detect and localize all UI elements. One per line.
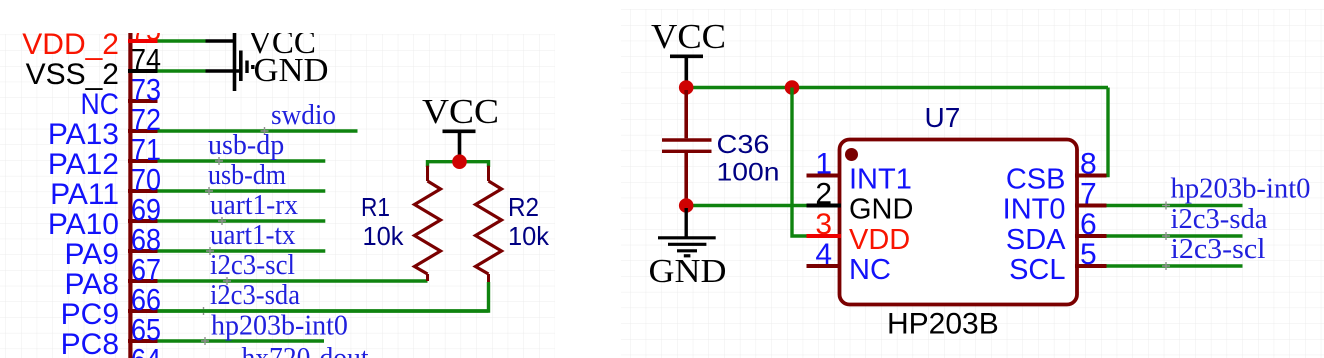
U7 pin 8 stub (CSB) [1075,174,1107,178]
VCC power symbol stem [458,131,462,161]
wire net hp203b-int0 (right) [1107,204,1243,207]
U7 pin 2 stub (GND) [807,204,842,208]
resistor R1 body zigzag [415,181,441,274]
svg-text:GND: GND [254,52,329,89]
junction dot VCC/R1/R2 [452,154,467,169]
U7 pin-1 marker dot [845,148,858,161]
svg-text:5: 5 [1080,238,1097,271]
wire joint marker swdio [261,127,269,135]
resistor R2 top wire corner [487,160,490,167]
U7 pin 1 stub (INT1) [807,174,842,178]
resistor R1 bottom lead [426,274,429,281]
wire net uart1-tx [158,249,326,252]
wire joint marker usb-dp [215,157,223,165]
MCU pin 68 stub (PA9) [128,249,158,253]
VCC power symbol (right): bar [670,54,703,58]
wire joint marker uart1-rx [218,217,226,225]
svg-text:i2c3-scl: i2c3-scl [210,250,295,281]
MCU pin 75 stub (VDD_2) [128,39,158,43]
svg-text:3: 3 [815,208,832,241]
GND symbol bar 3 [245,61,248,74]
GND symbol (right): bar 3 [677,249,697,252]
op-amp/sensor U7 body [840,140,1078,305]
svg-text:INT0: INT0 [1003,193,1066,225]
GND symbol (right): bar 1 [658,236,716,239]
svg-text:GND: GND [649,253,727,290]
U7 pin 5 stub (SCL) [1075,264,1107,268]
svg-text:2: 2 [815,177,832,210]
wire joint marker i2c3-scl [223,277,231,285]
svg-text:uart1-tx: uart1-tx [210,220,296,251]
wire net i2c3-scl [158,279,428,282]
svg-text:U7: U7 [925,102,961,133]
resistor R2 body zigzag [476,181,502,274]
U7 pin 7 stub (INT0) [1075,204,1107,208]
svg-text:NC: NC [81,88,120,121]
wire VDD branch vertical to pin 3 [792,88,807,237]
svg-text:hp203b-int0: hp203b-int0 [1171,174,1311,205]
U7 pin 4 stub (NC) [807,264,842,268]
wire net i2c3-sda (right) [1107,234,1243,237]
U7 pin 3 stub (VDD) [807,234,842,238]
VCC power symbol above resistors: bar [443,130,476,134]
wire net hp203b-int0 [158,339,325,342]
svg-text:SDA: SDA [1006,224,1066,256]
svg-text:1: 1 [815,147,832,180]
svg-text:7: 7 [1080,177,1097,210]
resistor R2 top lead [487,166,490,181]
resistor R1 top lead [426,166,429,181]
wire net i2c3-scl (right) [1107,264,1243,267]
svg-text:R1: R1 [361,192,390,222]
MCU pin 65 stub (PC8) [128,339,158,343]
svg-text:i2c3-sda: i2c3-sda [1171,204,1269,235]
svg-text:6: 6 [1080,208,1097,241]
svg-text:PC9: PC9 [61,298,119,331]
svg-text:INT1: INT1 [849,163,912,195]
svg-text:PA12: PA12 [48,148,119,181]
MCU pin 71 stub (PA12) [128,159,158,163]
capacitor C36 top plate [662,138,712,141]
svg-text:R2: R2 [508,192,539,222]
power symbol VCC pin (black) at pin 75 [206,39,235,42]
svg-text:usb-dm: usb-dm [208,160,286,191]
svg-text:VCC: VCC [422,92,499,131]
wire joint marker i2c3-scl (right) [1162,262,1170,270]
wire net swdio [158,129,358,132]
wire joint marker hp203b-int0 [201,337,209,345]
wire joint marker usb-dm [205,187,213,195]
wire VCC node to resistor tops [428,160,489,163]
wire R2 bottom to i2c3-sda [158,282,489,311]
svg-text:NC: NC [849,254,891,286]
svg-text:PA11: PA11 [50,178,119,211]
wire net usb-dm [158,189,326,192]
VCC power-bar (vertical) [233,30,237,55]
wire joint marker i2c3-sda [200,307,208,315]
MCU pin 72 stub (PA13) [128,129,158,133]
svg-text:CSB: CSB [1006,163,1066,195]
VCC power symbol (right): stem [684,56,688,84]
wire pin74 to GND symbol [158,69,206,72]
svg-text:C36: C36 [717,129,770,159]
svg-text:uart1-rx: uart1-rx [210,190,298,221]
MCU pin 67 stub (PA8) [128,279,158,283]
GND symbol bar 4 [251,65,254,69]
capacitor C36 top lead [684,90,688,138]
MCU pin 69 stub (PA10) [128,219,158,223]
svg-text:PA8: PA8 [65,268,119,301]
GND symbol bar 2 [239,51,243,82]
capacitor C36 bottom lead [684,153,688,202]
wire joint marker hp203b-int0 (right) [1162,202,1170,210]
svg-text:PC8: PC8 [61,328,119,358]
svg-text:HP203B: HP203B [887,308,999,341]
svg-text:i2c3-scl: i2c3-scl [1171,234,1266,265]
svg-text:VSS_2: VSS_2 [26,58,119,91]
GND symbol (right): stem [685,208,688,238]
svg-text:VCC: VCC [651,17,726,56]
wire joint marker i2c3-sda (right) [1162,232,1170,240]
svg-text:GND: GND [849,193,913,225]
svg-text:8: 8 [1080,147,1097,180]
svg-text:SCL: SCL [1009,254,1065,286]
wire net uart1-rx [158,219,326,222]
wire GND node to U7 pin2 [686,204,807,207]
junction dot at GND/C36 [679,198,694,213]
MCU pin 73 stub (NC) [128,99,158,103]
wire pin75 to VCC symbol [158,39,206,42]
resistor R2 bottom lead [487,274,490,282]
MCU pin 70 stub (PA11) [128,189,158,193]
svg-text:100n: 100n [717,159,780,187]
svg-text:10k: 10k [508,221,550,251]
wire net usb-dp [158,159,326,162]
GND symbol bar 1 [233,54,237,91]
wire VCC rail to pin 8 riser [686,86,1108,89]
MCU pin 66 stub (PC9) [128,309,158,313]
svg-text:hp203b-int0: hp203b-int0 [211,311,348,342]
svg-text:4: 4 [815,238,832,271]
junction dot at VDD branch [785,80,800,95]
junction dot at VCC/C36 [679,80,694,95]
svg-text:VDD: VDD [849,224,910,256]
resistor R1 top wire corner [426,160,429,167]
wire net i2c3-sda [158,309,489,312]
power symbol GND pin (black) at pin 74 [206,69,240,72]
MCU pin 74 stub (VSS_2) [128,69,158,73]
svg-text:i2c3-sda: i2c3-sda [210,280,301,311]
MCU chip body edge [128,33,132,358]
wire joint marker uart1-tx [206,247,214,255]
svg-text:swdio: swdio [271,100,336,131]
svg-text:PA9: PA9 [65,238,119,271]
svg-text:10k: 10k [363,221,405,251]
GND symbol (right): bar 4 [684,254,691,257]
capacitor C36 bottom plate [662,150,712,153]
wire pin 8 riser down [1104,88,1108,176]
svg-text:64: 64 [131,342,161,358]
GND symbol (right): bar 2 [668,243,706,246]
U7 pin 6 stub (SDA) [1075,234,1107,238]
svg-text:PA13: PA13 [48,118,119,151]
svg-text:hx720-dout: hx720-dout [242,343,369,358]
svg-text:PA10: PA10 [48,208,119,241]
svg-text:usb-dp: usb-dp [208,130,284,161]
